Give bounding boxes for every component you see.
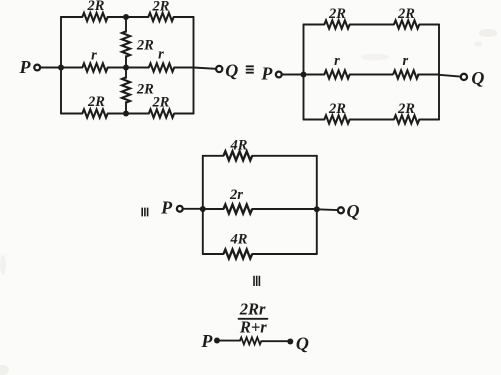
svg-text:2R: 2R <box>328 101 346 117</box>
svg-text:4R: 4R <box>230 232 248 248</box>
svg-text:Q: Q <box>296 334 309 354</box>
svg-text:P: P <box>200 331 213 351</box>
svg-text:2R: 2R <box>152 95 170 111</box>
svg-text:r: r <box>402 53 408 69</box>
svg-text:2R: 2R <box>397 101 415 117</box>
svg-text:4R: 4R <box>230 138 248 154</box>
svg-text:2r: 2r <box>229 187 243 203</box>
svg-text:P: P <box>260 63 273 83</box>
svg-text:P: P <box>160 198 173 218</box>
svg-text:2R: 2R <box>87 94 105 110</box>
svg-text:2R: 2R <box>87 0 105 14</box>
svg-text:Q: Q <box>471 68 484 88</box>
svg-text:2R: 2R <box>152 0 170 15</box>
svg-text:2R: 2R <box>136 37 154 53</box>
svg-text:2R: 2R <box>328 6 346 22</box>
svg-text:r: r <box>91 48 97 64</box>
svg-text:2Rr: 2Rr <box>239 299 266 318</box>
svg-text:2R: 2R <box>136 81 154 97</box>
svg-text:P: P <box>19 57 32 77</box>
svg-text:Q: Q <box>225 61 238 81</box>
svg-text:R+r: R+r <box>239 318 267 337</box>
svg-text:r: r <box>334 53 340 69</box>
svg-text:Q: Q <box>347 201 360 221</box>
svg-text:r: r <box>158 47 164 63</box>
svg-text:2R: 2R <box>397 6 415 22</box>
